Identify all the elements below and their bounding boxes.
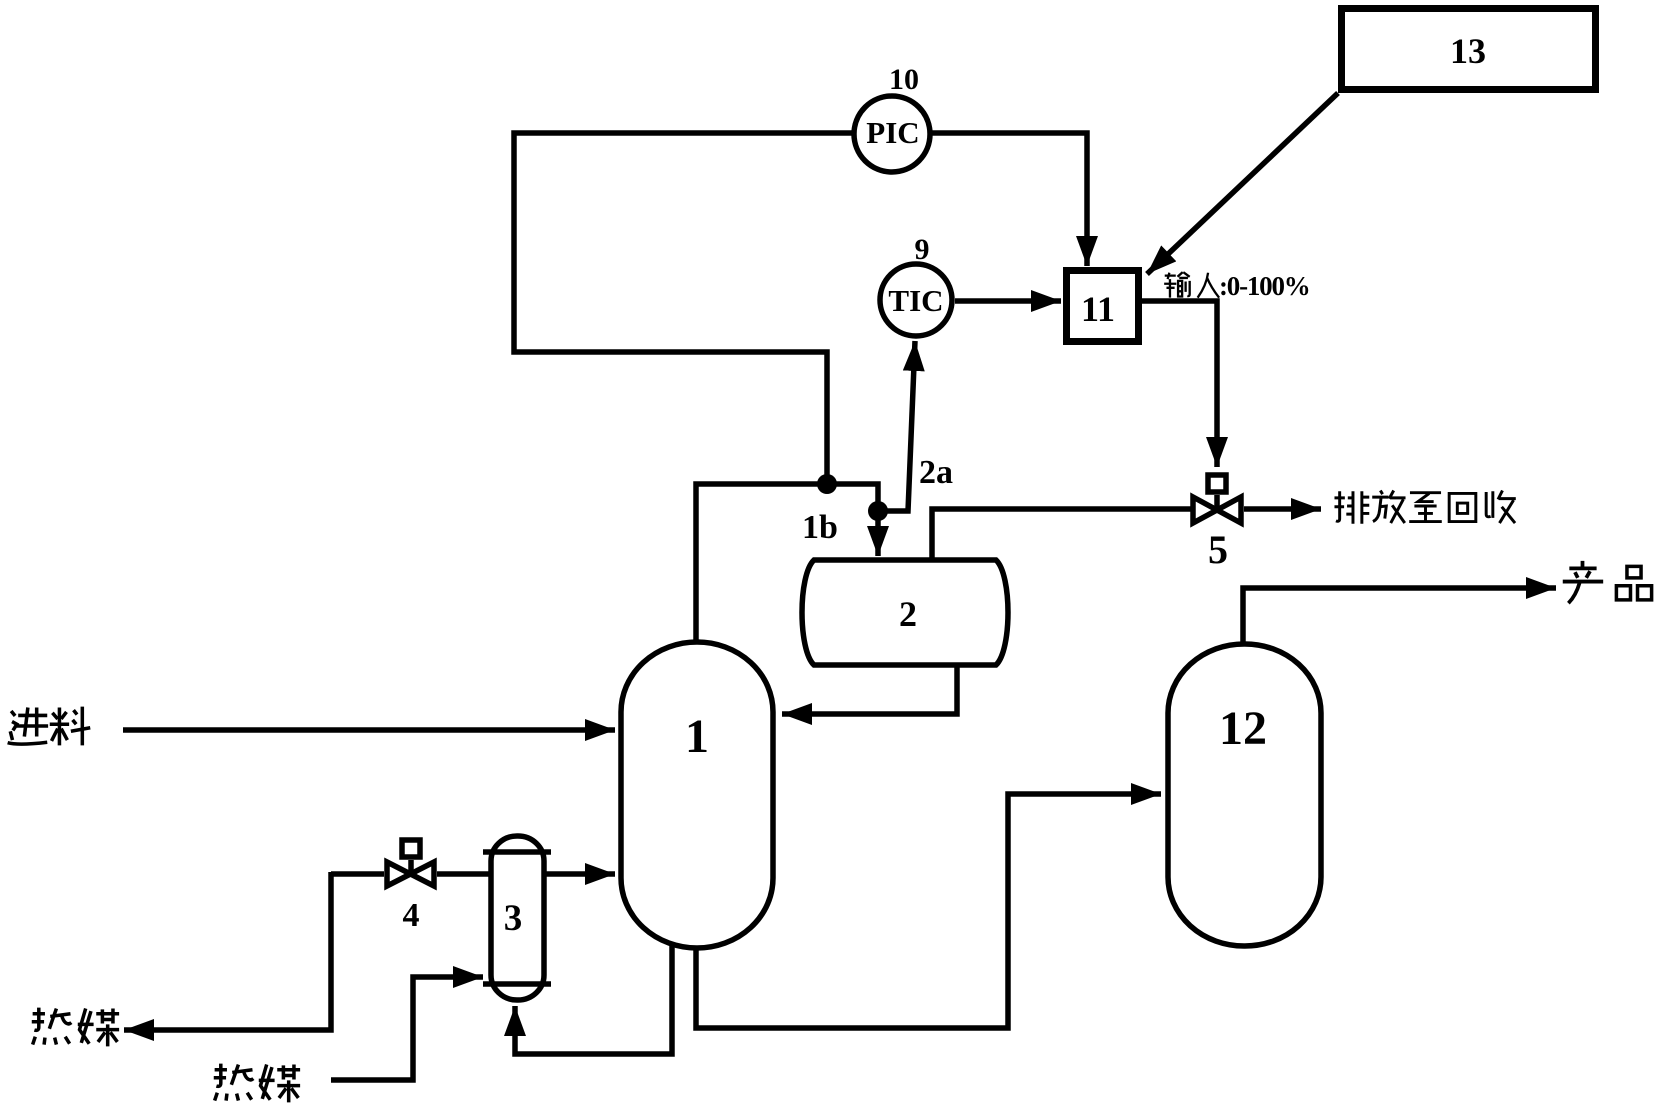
svg-text:5: 5: [1208, 527, 1228, 572]
controller PIC (10): [854, 96, 930, 172]
label 进料 (feed): [8, 707, 91, 746]
box: display 13: [1342, 9, 1596, 90]
wire: temperature signal line 2a to TIC: [878, 341, 915, 511]
label 排放至回收 (vent to recovery): [1334, 490, 1515, 523]
vessel 1 distillation column: [621, 642, 773, 948]
wire: pressure tap line from column top to condenser inlet: [696, 484, 878, 650]
wire: PIC pressure signal loop to computer 11: [514, 133, 1087, 484]
label 热媒 in (heating medium): [214, 1064, 300, 1103]
vessel 12 product tank: [1168, 644, 1321, 946]
svg-text:TIC: TIC: [888, 283, 943, 318]
svg-text:11: 11: [1081, 289, 1115, 329]
wire: column bottoms to heater 3: [515, 940, 672, 1054]
wire: product line from vessel 12: [1243, 588, 1556, 650]
controller TIC (9): [880, 264, 952, 336]
box: computer 11: [1067, 271, 1139, 342]
svg-text:4: 4: [403, 897, 420, 934]
valve 5: [1193, 475, 1241, 523]
svg-text:9: 9: [915, 233, 930, 266]
svg-text:13: 13: [1450, 31, 1486, 71]
node 2a: [868, 501, 888, 521]
wire: feed line into column 1: [123, 727, 615, 733]
wire: heating medium outlet line (to re-media): [124, 872, 384, 1030]
label 输入:0-100% (input 0-100%): [1164, 271, 1309, 301]
heater 3 bottom tangent line: [483, 981, 551, 987]
svg-text::0-100%: :0-100%: [1219, 271, 1310, 301]
wire: vent outlet to recovery: [1244, 506, 1321, 512]
svg-text:2a: 2a: [919, 454, 953, 491]
node 1b: [817, 474, 837, 494]
wire: condenser vent line to valve 5: [932, 509, 1192, 562]
svg-text:12: 12: [1219, 702, 1267, 755]
wire: condensate return from condenser to column: [782, 662, 957, 714]
label 产品 (product): [1563, 561, 1652, 603]
wire: display 13 link to computer 11: [1147, 93, 1338, 274]
svg-text:PIC: PIC: [866, 115, 919, 150]
vessel 2 condenser drum: [802, 560, 1008, 665]
vessel 3 heater body: [491, 836, 544, 1000]
svg-text:3: 3: [504, 898, 523, 939]
wire: computer 11 output to valve 5: [1142, 301, 1217, 467]
valve 4: [387, 840, 434, 886]
label 热媒 out (heating medium): [32, 1008, 119, 1047]
heater 3 top tangent line: [483, 849, 551, 855]
wire: valve 4 to heater 3 to column 1: [437, 871, 615, 877]
svg-text:2: 2: [899, 594, 917, 634]
svg-text:10: 10: [889, 63, 919, 96]
svg-text:1: 1: [685, 710, 709, 763]
wire: TIC output to computer 11: [955, 298, 1061, 304]
wire: heating medium inlet to heater 3: [331, 977, 483, 1080]
svg-text:1b: 1b: [802, 509, 838, 546]
wire: column bottoms to vessel 12: [696, 794, 1161, 1028]
